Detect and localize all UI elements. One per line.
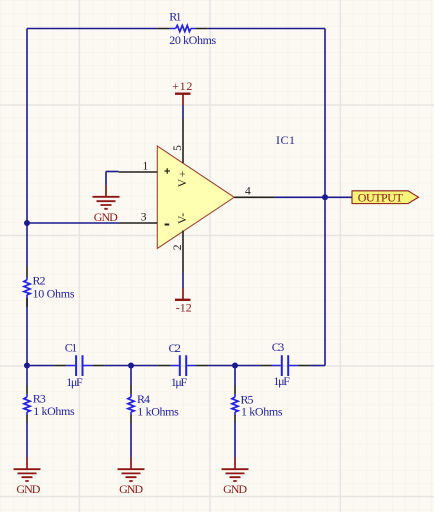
pin 2 stub (V- supply) (182, 231, 184, 273)
wire right rail (324, 29, 326, 366)
resistor R5 (232, 366, 283, 423)
pin 4 stub (234, 196, 274, 198)
node R4 junction (128, 363, 134, 369)
svg-text:1 kOhms: 1 kOhms (33, 404, 75, 418)
ground at pin 1 (93, 172, 120, 224)
svg-text:GND: GND (16, 482, 40, 496)
wire rail to output flag (325, 196, 352, 198)
wire pin 2 to -12 (182, 273, 184, 289)
svg-text:2: 2 (172, 244, 184, 250)
svg-text:3: 3 (141, 212, 147, 224)
wire C1 to R4 node (104, 365, 157, 367)
resistor R3 (24, 366, 75, 423)
svg-text:R2: R2 (33, 273, 46, 287)
ground below R3 (14, 458, 41, 497)
ground below R5 (222, 458, 249, 497)
svg-text:10 Ohms: 10 Ohms (33, 286, 75, 300)
wire bottom rail to C1 (27, 365, 54, 367)
op-amp IC1 (119, 119, 296, 273)
resistor R4 (128, 366, 179, 423)
node R5 junction (232, 363, 238, 369)
svg-text:1 kOhms: 1 kOhms (241, 404, 283, 418)
plus input marker (164, 168, 170, 174)
OUTPUT port flag (352, 191, 419, 205)
ground below R4 (118, 458, 145, 497)
pin 1 stub (119, 171, 158, 173)
svg-text:V+: V+ (177, 171, 189, 188)
svg-text:IC1: IC1 (276, 133, 295, 147)
wire R5 to ground (234, 423, 236, 458)
svg-text:C2: C2 (169, 341, 181, 355)
wire +12 to pin 5 (182, 105, 184, 119)
svg-text:4: 4 (245, 186, 251, 198)
svg-text:OUTPUT: OUTPUT (358, 191, 404, 205)
wire top-left corner to R1 (27, 28, 157, 30)
wire pin 3 to left rail (27, 222, 119, 224)
pin 5 stub (V+ supply) (182, 119, 184, 164)
wire output to rail (275, 196, 325, 198)
capacitor C3 (260, 340, 310, 388)
capacitor C1 (54, 340, 104, 389)
resistor R2 (24, 267, 75, 308)
svg-text:GND: GND (119, 482, 143, 496)
svg-text:20 kOhms: 20 kOhms (169, 33, 216, 47)
resistor R1 (157, 9, 216, 47)
minus input marker (165, 224, 170, 226)
svg-text:5: 5 (172, 145, 184, 151)
svg-text:GND: GND (94, 210, 118, 224)
svg-text:V-: V- (177, 213, 189, 224)
wire C3 to right rail (310, 365, 325, 367)
svg-text:1μF: 1μF (171, 375, 188, 389)
svg-text:1μF: 1μF (273, 374, 290, 388)
svg-text:GND: GND (223, 482, 247, 496)
svg-text:1μF: 1μF (66, 375, 83, 389)
wire R3 to ground (26, 423, 28, 458)
svg-text:+12: +12 (172, 79, 192, 93)
node output junction (322, 194, 328, 200)
svg-text:C1: C1 (65, 340, 77, 354)
pin 3 stub (119, 222, 158, 224)
wire left rail lower (26, 298, 28, 366)
power +12 (172, 79, 192, 105)
wire R4 to ground (130, 423, 132, 458)
wire left rail (26, 29, 28, 267)
node bottom-left junction (24, 363, 30, 369)
capacitor C2 (158, 341, 208, 389)
svg-text:1: 1 (143, 160, 149, 172)
node pin3 junction (24, 220, 30, 226)
power -12 (175, 288, 192, 314)
wire C2 to R5 node (208, 365, 260, 367)
svg-text:1 kOhms: 1 kOhms (137, 404, 179, 418)
svg-text:R1: R1 (169, 9, 181, 23)
wire R1 to top-right corner (208, 28, 325, 30)
svg-text:-12: -12 (176, 300, 192, 314)
svg-text:C3: C3 (272, 340, 284, 354)
